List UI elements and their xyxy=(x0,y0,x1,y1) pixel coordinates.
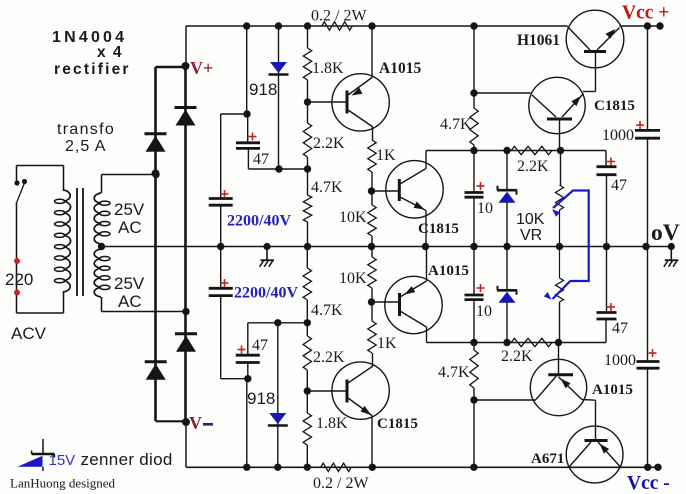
svg-text:A1015: A1015 xyxy=(428,263,469,279)
svg-text:transfo: transfo xyxy=(57,121,115,138)
svg-text:C1815: C1815 xyxy=(377,416,418,432)
svg-text:220: 220 xyxy=(5,270,33,289)
svg-text:ACV: ACV xyxy=(11,324,47,343)
svg-text:2.2K: 2.2K xyxy=(501,348,533,365)
svg-text:2.2K: 2.2K xyxy=(313,135,345,152)
svg-text:AC: AC xyxy=(118,292,142,311)
svg-text:25V: 25V xyxy=(114,200,145,219)
svg-text:1000: 1000 xyxy=(602,127,634,144)
svg-text:10K: 10K xyxy=(339,270,367,287)
svg-text:10K: 10K xyxy=(339,209,367,226)
svg-text:10K: 10K xyxy=(516,211,545,228)
svg-text:C1815: C1815 xyxy=(418,221,459,237)
svg-text:1K: 1K xyxy=(376,147,396,164)
svg-text:2.2K: 2.2K xyxy=(517,158,549,175)
svg-text:47: 47 xyxy=(253,151,269,168)
svg-text:25V: 25V xyxy=(114,274,145,293)
svg-text:4.7K: 4.7K xyxy=(440,116,472,133)
svg-text:47: 47 xyxy=(612,320,628,337)
svg-text:A671: A671 xyxy=(531,451,564,467)
svg-text:oV: oV xyxy=(651,220,680,246)
svg-text:15V: 15V xyxy=(49,452,76,469)
svg-text:1.8K: 1.8K xyxy=(316,415,348,432)
svg-text:x 4: x 4 xyxy=(97,44,123,61)
svg-text:4.7K: 4.7K xyxy=(311,179,343,196)
svg-text:Vcc +: Vcc + xyxy=(622,3,669,24)
svg-text:10: 10 xyxy=(477,200,493,217)
svg-text:0.2 / 2W: 0.2 / 2W xyxy=(313,475,369,492)
svg-text:Vcc -: Vcc - xyxy=(627,473,670,494)
svg-text:47: 47 xyxy=(611,177,627,194)
svg-text:47: 47 xyxy=(252,337,268,354)
svg-text:1000: 1000 xyxy=(604,352,636,369)
svg-text:2,5 A: 2,5 A xyxy=(65,138,106,155)
svg-text:1K: 1K xyxy=(377,335,397,352)
svg-text:A1015: A1015 xyxy=(592,382,633,398)
svg-text:zenner diod: zenner diod xyxy=(81,450,173,469)
svg-text:A1015: A1015 xyxy=(379,60,421,77)
svg-text:V: V xyxy=(189,413,202,433)
svg-text:AC: AC xyxy=(118,218,142,237)
svg-text:VR: VR xyxy=(520,227,542,244)
svg-text:H1061: H1061 xyxy=(517,32,560,49)
svg-text:10: 10 xyxy=(476,303,492,320)
svg-text:918: 918 xyxy=(247,389,275,408)
svg-text:2.2K: 2.2K xyxy=(313,349,345,366)
svg-text:4.7K: 4.7K xyxy=(311,302,343,319)
svg-text:0.2 / 2W: 0.2 / 2W xyxy=(311,8,367,25)
svg-text:2200/40V: 2200/40V xyxy=(234,285,298,302)
svg-text:1.8K: 1.8K xyxy=(312,60,344,77)
svg-text:C1815: C1815 xyxy=(594,98,635,114)
svg-text:rectifier: rectifier xyxy=(54,61,131,78)
svg-text:4.7K: 4.7K xyxy=(438,364,470,381)
svg-text:2200/40V: 2200/40V xyxy=(227,213,291,230)
svg-text:LanHuong designed: LanHuong designed xyxy=(10,476,116,491)
svg-text:918: 918 xyxy=(249,80,277,99)
svg-text:V+: V+ xyxy=(190,58,213,78)
